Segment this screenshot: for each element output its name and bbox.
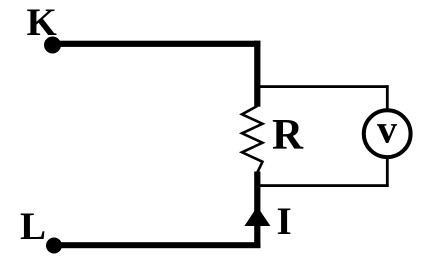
wire bottom horizontal (L to corner) <box>52 242 260 248</box>
wire thin top (node to voltmeter) <box>257 85 388 88</box>
terminal dot K <box>44 37 61 54</box>
svg-text:I: I <box>277 200 292 243</box>
wire top horizontal (K to corner) <box>52 41 260 47</box>
wire vertical thick (resistor to bottom wire) <box>254 172 260 249</box>
svg-text:L: L <box>20 205 46 248</box>
voltmeter U1 circle <box>364 110 411 157</box>
current arrow I head <box>244 207 270 227</box>
svg-text:R: R <box>272 112 304 159</box>
wire vertical thick (corner down to resistor) <box>254 41 260 107</box>
wire thin bottom (node back to resistor branch) <box>257 184 388 187</box>
wire thin right upper (into voltmeter top) <box>386 85 389 111</box>
resistor R1 zigzag <box>242 106 263 173</box>
terminal dot L <box>46 238 62 254</box>
wire thin right lower (voltmeter bottom to node) <box>386 156 389 187</box>
svg-text:v: v <box>377 107 397 152</box>
